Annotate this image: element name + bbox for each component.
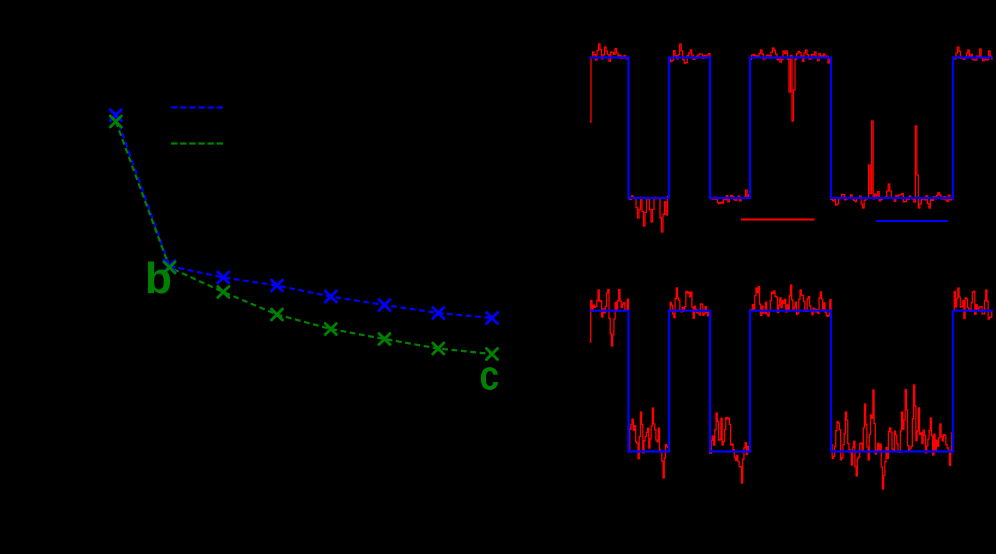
top right: blue square wave <box>590 58 994 199</box>
legend: green dashed sample <box>171 142 224 144</box>
svg-text:c: c <box>480 352 500 399</box>
bottom right: blue square wave <box>590 311 994 452</box>
svg-text:b: b <box>145 254 172 303</box>
top right: red noisy trace <box>590 44 994 232</box>
legend: blue dashed sample <box>171 106 224 108</box>
top right legend: blue sample <box>876 220 948 222</box>
top right legend: red sample <box>741 219 815 221</box>
bottom right: red noisy trace <box>590 285 994 489</box>
left chart: green x markers <box>110 116 497 360</box>
left chart: green dashed series line <box>116 122 492 355</box>
left chart: blue dashed series line <box>116 115 492 318</box>
left chart: blue x markers <box>110 110 497 324</box>
